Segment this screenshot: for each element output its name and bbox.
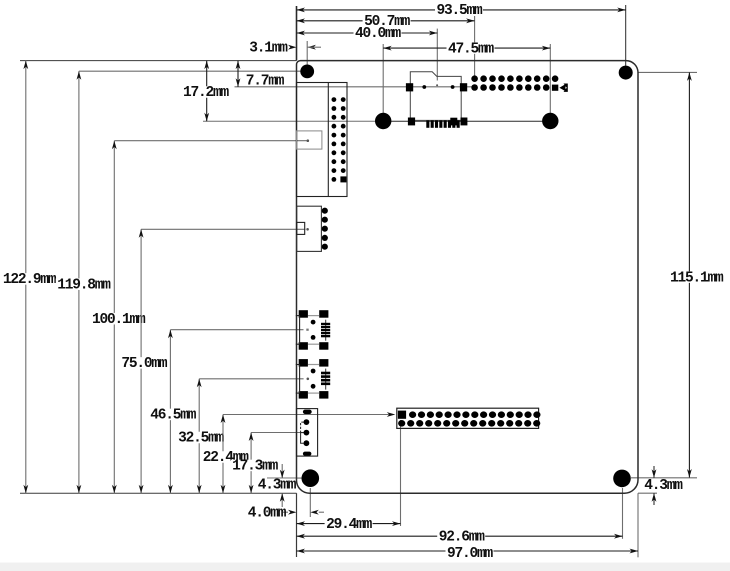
micro-USB A [296,310,330,350]
svg-text:122.9mm: 122.9mm [3,272,57,288]
svg-text:17.2mm: 17.2mm [183,85,230,101]
micro SD slot outline [410,72,461,121]
5-pin connector outline [297,206,322,251]
micro SD index dots [422,85,426,89]
dimension 115.1mm [688,72,690,477]
extension line 100.1 to HDMI notch [114,140,306,142]
power connector outline [297,409,318,457]
extension vertical board left edge top [296,6,298,61]
bottom pin header outline [397,408,539,428]
dimension 4.3mm right [653,466,655,478]
svg-text:100.1mm: 100.1mm [92,312,146,328]
power connector bracket [301,422,304,433]
svg-text:97.0mm: 97.0mm [447,546,494,562]
dimension 17.3mm vertical [250,433,252,494]
dimension 47.5mm [383,47,550,49]
extension vertical hole BR bottom [622,488,624,539]
extension line 22.4 to bottom header pin1 [223,414,390,416]
extension line 17.2 to interior hole [203,120,383,122]
extension line 46.5 to usb A [170,329,303,331]
5-pin connector notch [297,222,305,234]
svg-text:115.1mm: 115.1mm [670,270,724,286]
svg-text:4.0mm: 4.0mm [248,505,287,521]
extension line hole TL center [79,70,307,72]
mounting hole BR [613,470,631,488]
dimension 50.7mm [297,20,475,22]
bottom gray strip [0,563,730,571]
extension line bottom edge left [20,492,297,494]
top pin header pin marker square [552,85,558,91]
extension line hole TR center right [638,71,697,73]
dimension 29.4mm [297,523,401,525]
board outline [297,61,639,494]
interior hole left [375,113,391,129]
mounting hole TL [300,65,314,79]
dimension 97.0mm [297,550,639,552]
mounting hole BL [302,469,320,487]
extension line 7.7 through sd slot [235,86,472,88]
dimension 75.0mm vertical [140,229,142,493]
interior hole right [542,113,558,129]
extension vertical hole TL [306,41,308,66]
dimension 7.7mm [237,61,239,87]
extension line 17.3 to power connector [251,432,306,434]
mounting hole TR [619,66,633,80]
top pin header [471,75,478,82]
svg-text:46.5mm: 46.5mm [150,408,197,424]
dimension 4.0mm [288,510,297,515]
power connector top pad [303,410,312,414]
extension line 75.0 to connector [141,228,305,230]
extension vertical interior hole right [549,44,551,121]
svg-text:7.7mm: 7.7mm [246,74,285,90]
bottom pin header pins row1 [409,411,416,418]
svg-text:17.3mm: 17.3mm [232,459,279,475]
dimension 93.5mm [297,9,626,11]
extension vertical board right edge bottom [637,493,639,557]
svg-text:119.8mm: 119.8mm [57,277,111,293]
extension vertical interior hole left [382,44,384,121]
dimension 32.5mm vertical [198,379,200,493]
extension line hole BL center [267,477,310,479]
extension vertical hole TR [625,5,627,67]
svg-text:4.3mm: 4.3mm [258,477,297,493]
extension line 32.5 to usb B [199,378,303,380]
dimension 40.0mm [297,32,438,34]
RJ45 pins [332,97,337,102]
dimension 122.9mm vertical [25,61,27,494]
dimension 3.1mm [288,45,297,50]
dimension 92.6mm [297,535,623,537]
dimension 100.1mm vertical [113,141,115,494]
svg-text:4.3mm: 4.3mm [644,478,683,494]
dimension 17.2mm [206,61,208,122]
micro SD pads [406,83,413,91]
svg-text:32.5mm: 32.5mm [178,431,225,447]
extension line top edge left [20,60,297,62]
dimension 4.3mm left [281,464,283,478]
RJ45 notch [297,131,322,149]
extension vertical board left edge bottom [296,493,298,557]
extension line bottom edge right [638,492,657,494]
power connector pins [304,419,310,425]
micro-USB B [296,359,330,399]
svg-text:3.1mm: 3.1mm [249,40,288,56]
5-pin connector pins [322,208,328,214]
svg-text:92.6mm: 92.6mm [439,530,486,546]
extension vertical hole BL bottom [309,488,311,517]
svg-text:47.5mm: 47.5mm [448,41,495,57]
power connector bottom pad [303,452,312,456]
dimension 46.5mm vertical [169,330,171,494]
extension vertical sd notch [436,29,438,81]
svg-text:40.0mm: 40.0mm [355,26,402,42]
bottom pin header pin1 square [398,411,406,419]
svg-text:29.4mm: 29.4mm [326,517,373,533]
dimension 22.4mm vertical [222,415,224,494]
extension vertical bottom header pin1 down [400,420,402,526]
micro SD contacts [426,120,429,127]
dimension 119.8mm vertical [78,71,80,493]
RJ45 connector outline [297,83,348,197]
extension vertical header col1 [474,16,476,80]
extension line hole BR center right [631,477,697,479]
svg-text:75.0mm: 75.0mm [121,356,168,372]
bottom pin header pins row2 [398,420,405,427]
svg-text:93.5mm: 93.5mm [436,3,483,19]
top pin header arrow [559,84,567,92]
